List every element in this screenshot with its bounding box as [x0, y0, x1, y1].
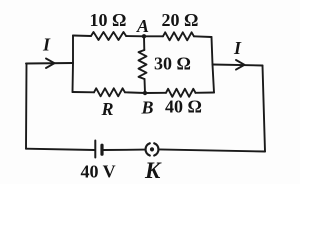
resistor 20 ohm: [163, 32, 194, 40]
bridge box left edge: [72, 36, 75, 93]
svg-text:10 Ω: 10 Ω: [90, 10, 127, 30]
wire: right outer vertical: [263, 66, 266, 152]
resistor R: [94, 88, 125, 96]
wire: exit lead with arrow to right vertical: [213, 65, 263, 66]
wire: node B to 40 ohm: [145, 92, 166, 94]
key K (plug key: broken circle with centre dot): [146, 143, 159, 155]
arrow head on entry lead (current I): [46, 59, 55, 69]
wire: node A down to 30 ohm: [143, 36, 145, 50]
wire: battery to key: [104, 149, 146, 151]
wire: top-left to 10 ohm: [73, 35, 91, 38]
wire: node A to 20 ohm: [144, 35, 163, 37]
arrow head on exit lead (current I): [236, 60, 245, 70]
resistor 40 ohm: [166, 89, 195, 97]
wire: bottom left segment to battery: [26, 149, 95, 150]
node A junction dot: [142, 34, 146, 38]
svg-text:K: K: [144, 158, 162, 183]
svg-text:B: B: [141, 98, 154, 118]
wire: bottom-left to R: [73, 91, 95, 93]
resistor 10 ohm: [91, 32, 126, 40]
svg-text:40 Ω: 40 Ω: [165, 97, 202, 117]
wire: R to node B: [125, 91, 145, 94]
svg-text:30 Ω: 30 Ω: [154, 54, 191, 74]
svg-text:I: I: [42, 35, 51, 55]
battery 40 V: [95, 141, 102, 158]
svg-text:R: R: [101, 99, 114, 119]
wire: left outer vertical: [25, 64, 28, 149]
node B junction dot: [143, 91, 147, 95]
svg-text:20 Ω: 20 Ω: [162, 10, 199, 30]
wire: 20 ohm to top-right corner: [194, 35, 212, 38]
svg-text:I: I: [233, 38, 242, 58]
wire: entry lead from left vertical to bridge: [26, 62, 73, 65]
svg-text:40 V: 40 V: [81, 162, 116, 182]
svg-text:A: A: [136, 16, 149, 36]
resistor 30 ohm (vertical): [139, 50, 147, 79]
bridge box right edge: [212, 37, 215, 93]
wire: key to bottom right corner: [159, 149, 265, 151]
wire: 10 ohm to node A: [126, 35, 144, 37]
wire: 30 ohm down to node B: [144, 79, 147, 93]
wire: 40 ohm to bottom-right corner: [196, 92, 215, 94]
